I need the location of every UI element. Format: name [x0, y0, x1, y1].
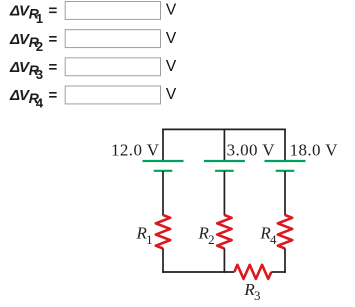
- wire bottom left segment: [162, 271, 234, 273]
- svg-text:1: 1: [36, 11, 43, 26]
- resistor R4: [278, 215, 292, 249]
- svg-text:1: 1: [146, 232, 153, 247]
- label ΔV_R1 =: [9, 3, 58, 26]
- label ΔV_R4 =: [9, 87, 58, 110]
- svg-text:4: 4: [270, 232, 277, 247]
- input box ΔV_R1: [65, 2, 160, 20]
- svg-text:V: V: [166, 30, 177, 47]
- label R1: [136, 223, 153, 247]
- resistor R1: [156, 215, 170, 249]
- wire middle branch upper: [223, 129, 225, 160]
- wire left branch upper: [162, 129, 164, 160]
- label R3: [243, 280, 260, 303]
- wire left branch lower: [162, 248, 164, 273]
- input box ΔV_R4: [65, 86, 160, 104]
- resistor R2: [217, 215, 231, 249]
- label R4: [259, 223, 277, 247]
- wire top horizontal: [162, 128, 286, 130]
- wire right branch upper: [284, 129, 286, 160]
- svg-text:18.0 V: 18.0 V: [290, 141, 339, 160]
- svg-text:V: V: [166, 2, 177, 19]
- svg-text:2: 2: [36, 39, 43, 54]
- wire bottom right segment: [271, 271, 286, 273]
- svg-text:12.0 V: 12.0 V: [111, 141, 160, 160]
- label ΔV_R2 =: [9, 31, 58, 54]
- svg-text:3.00 V: 3.00 V: [227, 141, 276, 160]
- battery V2 3.00 V: [204, 161, 245, 171]
- svg-text:V: V: [166, 58, 177, 75]
- svg-text:4: 4: [36, 95, 44, 110]
- battery V3 18.0 V: [265, 161, 306, 171]
- input box ΔV_R2: [65, 30, 160, 48]
- wire middle branch middle: [223, 171, 225, 216]
- svg-text:=: =: [49, 31, 58, 48]
- svg-text:3: 3: [254, 288, 261, 303]
- wire right branch lower: [284, 248, 286, 273]
- svg-text:3: 3: [36, 67, 43, 82]
- svg-text:2: 2: [208, 232, 215, 247]
- wire left branch middle: [162, 171, 164, 216]
- input box ΔV_R3: [65, 58, 160, 76]
- battery V1 12.0 V: [143, 161, 184, 171]
- wire middle branch lower: [223, 248, 225, 273]
- svg-text:=: =: [49, 59, 58, 76]
- resistor R3: [234, 265, 271, 279]
- wire right branch middle: [284, 171, 286, 216]
- svg-text:=: =: [49, 87, 58, 104]
- svg-text:V: V: [166, 86, 177, 103]
- svg-text:=: =: [49, 3, 58, 20]
- label R2: [198, 223, 215, 247]
- label ΔV_R3 =: [9, 59, 58, 82]
